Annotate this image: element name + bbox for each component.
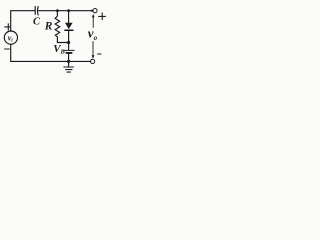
junction node dot at wire end before top terminal [91, 10, 93, 12]
capacitor C left plate [34, 7, 36, 15]
svg-text:R: R [44, 21, 53, 33]
svg-text:C: C [33, 16, 41, 27]
ground bar 1 [64, 66, 74, 68]
battery bottom stem to rail [68, 54, 70, 62]
wire from source top up and right to capacitor [11, 11, 36, 32]
junction node dot at diode bottom [67, 41, 70, 44]
wire resistor bottom to diode bottom node [57, 42, 68, 44]
ground stub [68, 61, 70, 66]
minus sign at source [5, 48, 10, 50]
junction node dot at R top [56, 9, 59, 12]
output terminal bottom circle [91, 59, 95, 63]
vo arrow upper stem [92, 17, 94, 28]
voltage source vi circle [4, 31, 17, 44]
ground bar 2 [66, 69, 72, 71]
battery VB short plate [66, 52, 71, 54]
plus sign at source [5, 26, 10, 28]
vo arrowhead down [92, 55, 95, 59]
plus sign at output [99, 15, 106, 17]
diode cathode bar [65, 29, 73, 31]
resistor R zigzag [55, 11, 60, 43]
ground bar 3 [67, 71, 70, 73]
diode cathode stem down to battery [68, 30, 70, 50]
minus sign at output [98, 53, 101, 55]
wire bottom rail [11, 60, 91, 62]
diode anode stem [68, 11, 70, 23]
vo arrow lower stem [92, 42, 94, 56]
wire capacitor to output terminal [38, 10, 93, 12]
output terminal top circle [93, 9, 97, 13]
wire source bottom down to rail [10, 44, 12, 61]
junction node dot at ground on rail [67, 60, 70, 63]
vo arrowhead up [92, 14, 95, 18]
battery VB long plate [64, 49, 75, 51]
capacitor C right plate (curved) [37, 7, 40, 15]
junction node dot at diode top [67, 9, 70, 12]
diode triangle [65, 23, 73, 29]
